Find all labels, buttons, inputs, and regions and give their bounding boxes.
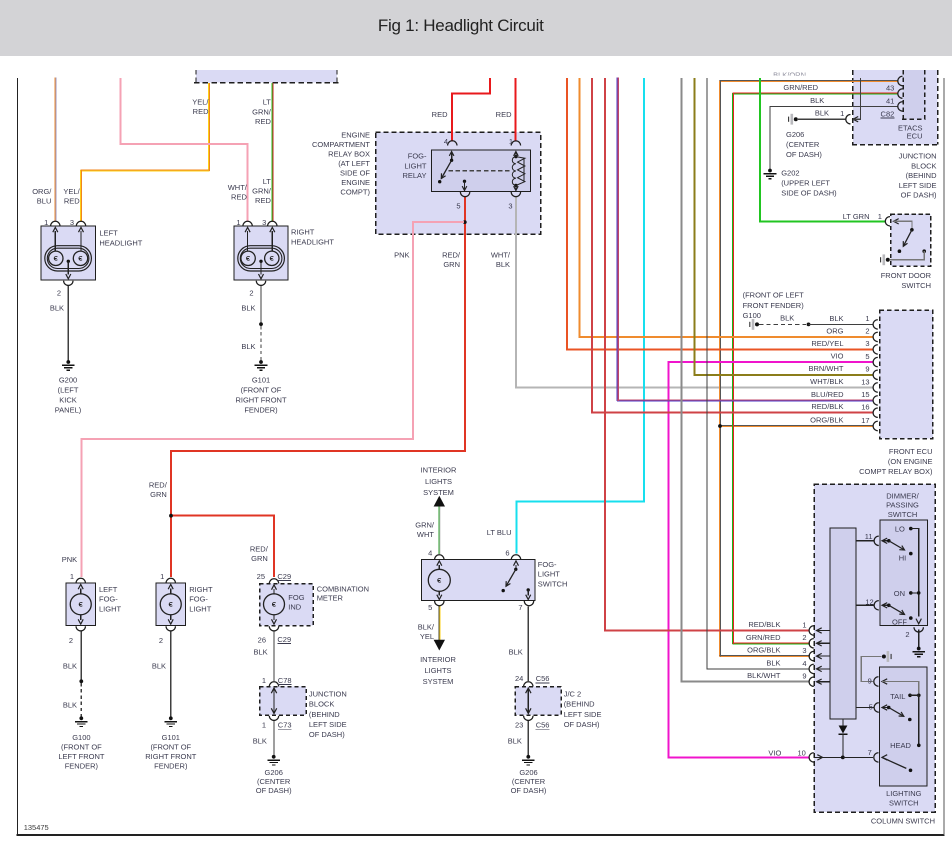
svg-text:GRN/RED: GRN/RED (783, 83, 818, 92)
svg-text:2: 2 (57, 288, 61, 297)
svg-text:RED: RED (64, 197, 80, 206)
svg-text:PASSING: PASSING (886, 501, 919, 510)
svg-text:12: 12 (865, 597, 873, 606)
junction block box C78/C73 (dashed) (260, 687, 307, 716)
lighting switch pin 7 blade (882, 757, 906, 768)
left fog light bulb internals (80, 589, 82, 594)
wire BLK left headlight pin 2 to ground G200 (67, 286, 69, 361)
junction BLK G100 row (807, 323, 811, 327)
wire WHT/BLK from relay pin 3 to front ECU pin 13 (516, 197, 873, 388)
svg-text:BLK/WHT: BLK/WHT (747, 671, 781, 680)
svg-text:BLK: BLK (829, 314, 843, 323)
svg-text:ORG: ORG (826, 326, 843, 335)
svg-text:(CENTER: (CENTER (786, 140, 820, 149)
left fog light pin 1 arc (76, 578, 85, 583)
lighting switch pin 5 line and arc (856, 707, 873, 709)
wire RED/GRN branch to combination meter pin 25 (171, 516, 274, 577)
J/C 2 box (dashed) (515, 687, 561, 716)
svg-text:LIGHTING: LIGHTING (886, 789, 922, 798)
wire LT GRN/RED from connector strip to right headlight pin 3 (271, 83, 273, 222)
left headlight box (41, 226, 96, 280)
right fog light box (156, 583, 186, 626)
wire YEL/RED from connector strip to left headlight pin 3 (208, 83, 210, 171)
diagram frame border (17, 78, 19, 836)
svg-text:BLK: BLK (766, 658, 780, 667)
wire ORG (cut label) ETACS row to ORG/BLK front ECU 17 and column switch 3 (719, 81, 898, 83)
svg-text:RED: RED (496, 110, 512, 119)
lighting switch pin 5 contact and blade (887, 706, 891, 710)
svg-text:(FRONT OF: (FRONT OF (61, 743, 102, 752)
svg-text:LIGHT: LIGHT (404, 161, 427, 170)
svg-text:G101: G101 (162, 733, 180, 742)
svg-text:BLU: BLU (37, 197, 52, 206)
svg-text:INTERIOR: INTERIOR (421, 466, 457, 475)
svg-text:(CENTER: (CENTER (257, 777, 291, 786)
svg-text:RED/BLK: RED/BLK (811, 402, 843, 411)
svg-text:RED/BLK: RED/BLK (748, 620, 780, 629)
svg-text:G100: G100 (743, 311, 761, 320)
lighting switch TAIL contacts (908, 694, 912, 698)
svg-text:3: 3 (70, 218, 74, 227)
svg-text:4: 4 (428, 548, 432, 557)
svg-text:C56: C56 (536, 721, 550, 730)
junction BLK left fog light (79, 679, 83, 683)
svg-text:COMPT RELAY BOX): COMPT RELAY BOX) (859, 467, 933, 476)
front door switch blade (903, 230, 912, 247)
svg-text:LIGHTS: LIGHTS (425, 477, 452, 486)
wire junction to lighting switch pin 7 (843, 756, 873, 758)
connector C73 pin arc (846, 115, 851, 124)
svg-text:FOG-: FOG- (408, 152, 427, 161)
svg-text:1: 1 (509, 137, 513, 146)
wire VIO front ECU pin 5 to column switch pin 10 (669, 362, 873, 757)
wire PNK from relay junction to left fog light pin 1 (82, 222, 464, 577)
relay actuation dashed link (448, 170, 512, 172)
svg-text:ORG/BLK: ORG/BLK (747, 646, 780, 655)
svg-text:BLU/RED: BLU/RED (811, 390, 844, 399)
svg-text:GRN/: GRN/ (252, 186, 272, 195)
svg-text:OF DASH): OF DASH) (901, 191, 937, 200)
left fog light box (66, 583, 96, 626)
svg-text:SYSTEM: SYSTEM (423, 677, 454, 686)
junction BLK right headlight (259, 322, 263, 326)
svg-text:6: 6 (505, 548, 509, 557)
svg-text:5: 5 (869, 703, 873, 712)
left headlight pin 1 arc (51, 221, 60, 226)
svg-text:1: 1 (878, 212, 882, 221)
svg-text:15: 15 (861, 390, 869, 399)
svg-text:C73: C73 (278, 721, 292, 730)
fog light switch pin 4 arc (435, 555, 444, 560)
wire ORG to front ECU pin 2 (579, 78, 872, 337)
combination meter box (dashed) (260, 584, 314, 626)
right headlight bulb internals (238, 246, 285, 271)
svg-text:1: 1 (44, 218, 48, 227)
wire RED to relay pin 4 (452, 78, 490, 141)
svg-text:BLK: BLK (254, 648, 268, 657)
wire BLK from G100 to front ECU pin 1 (749, 322, 751, 327)
svg-text:16: 16 (861, 403, 869, 412)
svg-text:G206: G206 (786, 130, 804, 139)
fog light switch pin 7 contact (527, 588, 530, 591)
svg-text:9: 9 (865, 365, 869, 374)
wire ORG/BLU to left headlight pin 1 (54, 77, 56, 221)
arrow to interior lights system (down) (434, 640, 445, 651)
dimmer pin 2 arc (914, 627, 923, 632)
svg-text:(ON ENGINE: (ON ENGINE (888, 457, 933, 466)
svg-text:SIDE OF: SIDE OF (340, 169, 370, 178)
svg-text:RED: RED (255, 196, 271, 205)
right headlight pin 1 arc (243, 221, 252, 226)
svg-text:LEFT: LEFT (99, 229, 118, 238)
chassis symbol (lighting switch) (890, 654, 892, 659)
left fog light pin 2 arc (76, 626, 85, 631)
svg-text:ON: ON (894, 589, 905, 598)
right fog light pin 1 arc (166, 578, 175, 583)
svg-text:3: 3 (508, 202, 512, 211)
svg-text:BLK: BLK (63, 662, 77, 671)
svg-text:COMPARTMENT: COMPARTMENT (312, 140, 370, 149)
svg-text:BLK: BLK (780, 314, 794, 323)
wire BLK solid to front ECU pin 1 (809, 323, 873, 325)
ETACS pin 43 arc (898, 89, 903, 98)
lighting switch pin 7 arc (874, 753, 879, 762)
svg-text:BLK: BLK (241, 304, 255, 313)
svg-text:PANEL): PANEL) (55, 406, 82, 415)
right headlight pin 3 arc (268, 221, 277, 226)
svg-text:YEL: YEL (420, 632, 434, 641)
svg-text:4: 4 (802, 659, 806, 668)
wire BLK combination meter pin 26 to junction block C78 (273, 631, 275, 681)
svg-text:1: 1 (70, 572, 74, 581)
combination meter pin 26 arc (269, 626, 278, 631)
svg-text:FRONT FENDER): FRONT FENDER) (743, 301, 805, 310)
fog light switch bulb internals (438, 565, 440, 569)
ground G100 (left fog light) (79, 716, 83, 720)
relay switch contact from pin 4 (451, 153, 453, 161)
svg-text:5: 5 (865, 352, 869, 361)
svg-text:RED: RED (255, 117, 271, 126)
svg-text:INTERIOR: INTERIOR (420, 655, 456, 664)
svg-text:C56: C56 (536, 674, 550, 683)
relay switch blade (441, 160, 451, 178)
svg-text:HEAD: HEAD (890, 741, 911, 750)
wire BLK fog light switch pin 7 to J/C 2 C56 (527, 607, 529, 682)
wire BLK right fog light pin 2 to ground G101 (170, 631, 172, 717)
svg-text:LIGHT: LIGHT (538, 570, 561, 579)
svg-text:C29: C29 (277, 635, 291, 644)
lighting switch pin 9 arc (874, 677, 879, 686)
svg-text:RED/: RED/ (250, 544, 269, 553)
junction block / ETACS ECU box (dashed, cut off at top) (853, 70, 938, 145)
ground G101 (right headlight) (259, 360, 263, 364)
svg-text:5: 5 (428, 603, 432, 612)
dimmer switch pin 11 contact and blade (887, 539, 891, 543)
svg-text:(CENTER: (CENTER (512, 777, 546, 786)
relay pin 5 arc (460, 192, 469, 197)
wire BLK dashed to G100 (80, 683, 82, 717)
fog light switch pin 5 arc (435, 601, 444, 606)
svg-text:LT: LT (263, 177, 272, 186)
svg-text:BLOCK: BLOCK (309, 700, 334, 709)
svg-text:LT GRN: LT GRN (843, 212, 870, 221)
svg-text:LIGHT: LIGHT (189, 604, 212, 613)
svg-text:OF DASH): OF DASH) (511, 786, 547, 795)
fog light relay U1 inner box (432, 150, 531, 192)
column switch pin 10 arc (809, 753, 814, 762)
wire RED/BLK to column switch pin 1 (605, 78, 810, 631)
svg-text:9: 9 (868, 676, 872, 685)
svg-text:LEFT SIDE: LEFT SIDE (899, 181, 937, 190)
wire BLK right headlight pin 2 to ground G101 (260, 286, 262, 323)
svg-text:1: 1 (865, 314, 869, 323)
ETACS pin arc (top row) (898, 76, 903, 85)
wire from dimmer pin 2 to ground (918, 630, 920, 648)
ground G200 (66, 360, 70, 364)
svg-text:RIGHT: RIGHT (189, 585, 213, 594)
svg-text:HEADLIGHT: HEADLIGHT (99, 239, 142, 248)
wire LT GRN to front door switch pin 1 (760, 78, 885, 221)
svg-text:2: 2 (249, 288, 253, 297)
svg-text:BLK: BLK (63, 700, 77, 709)
ground G206 (J/C 2) (526, 755, 530, 759)
diode D1 (839, 726, 848, 734)
J/C 2 internal arrows (527, 689, 529, 714)
svg-text:7: 7 (868, 748, 872, 757)
dimmer/passing switch inner box (880, 520, 928, 626)
svg-text:(FRONT OF: (FRONT OF (150, 743, 191, 752)
column switch bar output to diode (842, 719, 844, 726)
svg-text:GRN/: GRN/ (252, 107, 272, 116)
right headlight box (234, 226, 288, 280)
svg-text:YEL/: YEL/ (192, 97, 209, 106)
svg-text:RIGHT: RIGHT (291, 228, 315, 237)
svg-text:G200: G200 (59, 376, 77, 385)
wire BLU/RED to front ECU pin 15 (616, 77, 618, 401)
svg-text:BLK: BLK (509, 648, 523, 657)
front door switch fixed contact (922, 249, 926, 253)
svg-text:(UPPER LEFT: (UPPER LEFT (781, 179, 830, 188)
svg-text:SYSTEM: SYSTEM (423, 488, 454, 497)
right fog light bulb internals (170, 589, 172, 594)
svg-text:RELAY BOX: RELAY BOX (328, 150, 370, 159)
svg-text:LIGHTS: LIGHTS (424, 666, 451, 675)
engine compartment relay box (dashed) (376, 132, 541, 234)
wire from chassis symbol to lighting switch pin 9 (861, 657, 881, 682)
column switch contact bar (830, 528, 856, 719)
svg-text:SWITCH: SWITCH (901, 281, 931, 290)
svg-text:OF DASH): OF DASH) (564, 720, 600, 729)
svg-text:GRN: GRN (443, 260, 460, 269)
svg-text:7: 7 (518, 603, 522, 612)
svg-text:ORG/BLK: ORG/BLK (810, 415, 843, 424)
svg-text:(LEFT: (LEFT (58, 386, 79, 395)
svg-text:KICK: KICK (59, 396, 77, 405)
chassis symbol (front door switch) (880, 257, 882, 262)
svg-text:1: 1 (262, 676, 266, 685)
svg-text:FOG-: FOG- (538, 560, 557, 569)
svg-text:FOG-: FOG- (189, 595, 208, 604)
svg-text:G206: G206 (519, 768, 537, 777)
left headlight bulb internals (45, 246, 92, 271)
fog light switch pin 7 arc (524, 601, 533, 606)
svg-text:FENDER): FENDER) (65, 762, 99, 771)
arrow to interior lights system (up) (434, 496, 445, 507)
svg-text:LEFT SIDE: LEFT SIDE (309, 720, 347, 729)
wire BLK ETACS pin 41 to ground G202 (770, 106, 898, 169)
svg-text:PNK: PNK (394, 251, 409, 260)
svg-text:FRONT DOOR: FRONT DOOR (881, 271, 932, 280)
svg-text:C29: C29 (277, 572, 291, 581)
svg-text:C78: C78 (278, 676, 292, 685)
svg-text:WHT: WHT (417, 530, 434, 539)
wire RED/YEL to front ECU pin 3 (567, 78, 873, 349)
wire BLK to column switch pin 4 (707, 78, 810, 669)
svg-text:ORG/: ORG/ (32, 187, 52, 196)
svg-text:1: 1 (262, 721, 266, 730)
J/C 2 C56 pin 23 arc (524, 716, 533, 721)
combination meter pin 25 arc (269, 579, 278, 584)
wire BLK from G206 symbol to C73 pin 1 (798, 118, 845, 120)
arrow into C73 (853, 117, 858, 122)
svg-text:RED/: RED/ (442, 251, 461, 260)
svg-text:ECU: ECU (907, 132, 923, 141)
svg-text:G101: G101 (252, 376, 270, 385)
fog indicator bulb internals (combination meter) (273, 589, 275, 594)
svg-text:BLK: BLK (50, 304, 64, 313)
svg-text:G206: G206 (265, 768, 283, 777)
dimmer ON contact (909, 591, 913, 595)
svg-text:3: 3 (865, 339, 869, 348)
svg-text:JUNCTION: JUNCTION (899, 152, 937, 161)
svg-text:RELAY: RELAY (402, 171, 426, 180)
svg-text:ENGINE: ENGINE (341, 131, 370, 140)
ground G206 (center of dash) (272, 755, 276, 759)
wire from pin 10 to junction (815, 756, 842, 758)
junction VIO net in column switch (841, 756, 845, 760)
junction block C73 pin arc (269, 716, 278, 721)
ETACS pin 41 arc (898, 102, 903, 111)
svg-text:BLK: BLK (152, 662, 166, 671)
dimmer LO contact (909, 527, 913, 531)
relay pin 1 arc (511, 141, 520, 146)
svg-text:(FRONT OF: (FRONT OF (241, 386, 282, 395)
svg-text:IND: IND (288, 603, 302, 612)
svg-text:10: 10 (797, 748, 805, 757)
svg-text:4: 4 (444, 137, 448, 146)
wire BRN/WHT to front ECU pin 9 (695, 78, 873, 375)
front door switch box (dashed) (891, 214, 931, 266)
svg-text:(BEHIND: (BEHIND (564, 700, 595, 709)
front door switch link to chassis (890, 251, 924, 260)
dimmer internal bus from LO to pin 2 (911, 529, 919, 617)
left headlight pin 2 arc (64, 281, 73, 286)
svg-text:GRN: GRN (150, 490, 167, 499)
wire BLK junction block C73 to ground G206 (273, 721, 275, 756)
svg-text:25: 25 (257, 572, 265, 581)
fog light switch box (422, 560, 536, 601)
svg-text:FOG-: FOG- (99, 595, 118, 604)
svg-text:BLK: BLK (815, 109, 829, 118)
J/C 2 C56 pin 24 arc (524, 682, 533, 687)
svg-text:2: 2 (865, 327, 869, 336)
svg-text:BLK: BLK (508, 736, 522, 745)
svg-text:BLK/ORN: BLK/ORN (773, 71, 806, 80)
relay pin 4 arc (448, 141, 457, 146)
svg-text:WHT/: WHT/ (491, 251, 511, 260)
lighting switch contact bus TAIL to HEAD (918, 695, 920, 745)
svg-text:BLK: BLK (253, 736, 267, 745)
svg-text:GRN: GRN (251, 554, 268, 563)
svg-text:JUNCTION: JUNCTION (309, 690, 347, 699)
cut label above top ETACS row (773, 71, 806, 80)
svg-text:BRN/WHT: BRN/WHT (809, 364, 844, 373)
svg-text:BLK: BLK (496, 260, 510, 269)
svg-text:26: 26 (258, 635, 266, 644)
svg-text:GRN/RED: GRN/RED (746, 633, 781, 642)
relay pin 5 contact (463, 180, 466, 183)
svg-text:WHT/BLK: WHT/BLK (810, 377, 843, 386)
svg-text:LT BLU: LT BLU (487, 528, 512, 537)
svg-text:BLK/: BLK/ (418, 623, 435, 632)
svg-text:24: 24 (515, 674, 523, 683)
wire BLK/WHT to column switch pin 9 (682, 78, 810, 682)
svg-text:J/C 2: J/C 2 (564, 690, 582, 699)
svg-text:DIMMER/: DIMMER/ (886, 491, 919, 500)
svg-text:43: 43 (886, 83, 894, 92)
front ECU box (dashed) (880, 310, 933, 439)
svg-text:SWITCH: SWITCH (888, 510, 918, 519)
dimmer switch pin 11 line and arc (856, 540, 873, 542)
svg-text:C82: C82 (881, 110, 895, 119)
column switch box (dashed) (814, 484, 935, 812)
svg-text:LEFT SIDE: LEFT SIDE (564, 710, 602, 719)
front ECU pin arcs (873, 320, 878, 329)
svg-text:SWITCH: SWITCH (889, 798, 919, 807)
front door switch pin 1 arc (885, 217, 890, 226)
junction RED/GRN at combination meter branch (169, 514, 173, 518)
svg-text:VIO: VIO (768, 748, 781, 757)
svg-text:(FRONT OF LEFT: (FRONT OF LEFT (743, 291, 805, 300)
svg-text:WHT/: WHT/ (228, 183, 248, 192)
wire BLK left fog light pin 2 to ground G100 (80, 631, 82, 680)
svg-text:YEL/: YEL/ (63, 187, 80, 196)
front door switch internal link (894, 219, 899, 224)
svg-text:RED/YEL: RED/YEL (811, 339, 843, 348)
wire WHT/RED to right headlight pin 1 (121, 78, 248, 221)
svg-text:3: 3 (802, 646, 806, 655)
title bar (0, 0, 952, 56)
svg-text:41: 41 (886, 96, 894, 105)
lighting switch pin 9 internal link (882, 682, 919, 694)
svg-text:OF DASH): OF DASH) (786, 150, 822, 159)
svg-text:BLK: BLK (810, 96, 824, 105)
svg-text:COMPT): COMPT) (340, 188, 370, 197)
svg-text:PNK: PNK (62, 555, 77, 564)
svg-text:LT: LT (263, 98, 272, 107)
svg-text:FOG: FOG (288, 593, 304, 602)
column switch pin arcs 1,2,3,4,9 (809, 626, 814, 635)
ground (dimmer pin 2) (917, 647, 921, 651)
ground G202 (768, 169, 772, 173)
right headlight pin 2 arc (256, 281, 265, 286)
junction block internal arrows (273, 689, 275, 714)
wire GRN/WHT from fog light switch pin 4 to interior lights system (438, 506, 440, 554)
svg-text:2: 2 (159, 636, 163, 645)
svg-text:COLUMN SWITCH: COLUMN SWITCH (871, 817, 935, 826)
svg-text:RED/: RED/ (149, 481, 168, 490)
svg-text:1: 1 (802, 620, 806, 629)
